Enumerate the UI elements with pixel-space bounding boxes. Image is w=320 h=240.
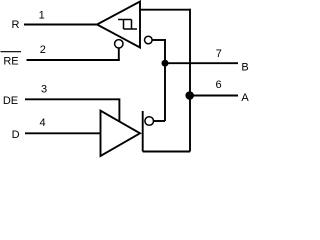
node A junction dot (185, 91, 194, 100)
op-amp U2 driver triangle (101, 111, 141, 156)
svg-text:B: B (241, 61, 248, 73)
svg-text:7: 7 (216, 48, 222, 60)
svg-text:4: 4 (40, 117, 46, 129)
wire B net vertical (164, 39, 166, 121)
wire A output (190, 95, 238, 97)
op-amp U1 receiver triangle (97, 2, 140, 48)
wire RE stub (118, 48, 120, 60)
driver inverting output bubble (145, 117, 154, 126)
receiver inverting input bubble (145, 36, 153, 44)
wire B output (165, 62, 238, 64)
wire D input (25, 132, 101, 134)
wire A net vertical (189, 9, 191, 152)
wire receiver non-inverting input top (140, 9, 190, 11)
svg-text:R: R (12, 19, 20, 31)
wire R output (24, 24, 98, 26)
svg-text:6: 6 (215, 79, 221, 91)
driver output bar (142, 111, 144, 152)
receiver enable bubble (115, 40, 123, 48)
svg-text:D: D (12, 129, 20, 141)
wire driver output bottom to A net (143, 151, 190, 153)
wire bubble stub to B net (152, 39, 165, 41)
svg-text:DE: DE (3, 95, 18, 107)
svg-text:RE: RE (3, 56, 18, 68)
svg-text:1: 1 (39, 10, 45, 22)
wire DE input with stub down to driver enable (25, 99, 119, 121)
wire RE input (27, 59, 120, 61)
svg-text:A: A (241, 92, 249, 104)
RE overline (1, 51, 22, 53)
hysteresis symbol (118, 20, 137, 30)
svg-text:2: 2 (40, 44, 46, 56)
node B junction dot (162, 60, 169, 67)
wire driver inverting output stub to B net (154, 120, 166, 122)
svg-text:3: 3 (41, 84, 47, 96)
